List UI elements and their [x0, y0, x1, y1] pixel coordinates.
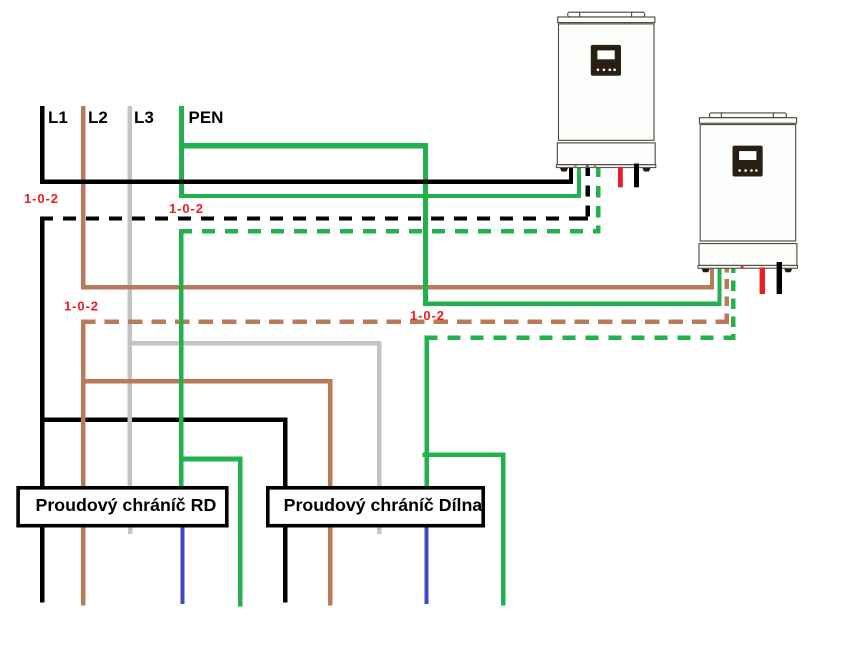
wire blue neutral below box Dilna — [424, 528, 428, 605]
wire brown horizontal y287 to inverter U2 — [81, 285, 714, 289]
wire L1 black feeder to box Dilna: horizontal y420 + drop at x285 — [40, 418, 287, 603]
box RCD Proudovy chranic Dilna — [268, 488, 483, 526]
U1 terminal tick brown — [574, 165, 577, 167]
wire brown vertical lower x83 into box RD — [81, 320, 86, 486]
svg-text:1-0-2: 1-0-2 — [410, 308, 445, 323]
wire green vertical x425 down to y303 — [423, 143, 428, 306]
wire green vertical lower x181 into box RD — [179, 229, 184, 486]
wire L2 brown bus vertical upper x83 — [81, 106, 86, 285]
wire green dashed return y231 from inverter U1 — [179, 229, 601, 233]
wire brown riser into inverter U2 at x712 — [710, 268, 714, 290]
svg-text:1-0-2: 1-0-2 — [24, 191, 59, 206]
wire green dashed return y338 from inverter U2 — [424, 336, 735, 340]
inverter U2 — [698, 113, 797, 294]
svg-text:L3: L3 — [134, 108, 154, 127]
wire green riser into inverter U2 at x719 — [717, 268, 721, 306]
svg-text:1-0-2: 1-0-2 — [64, 299, 99, 314]
wire green PE bypass vertical x240 to bottom — [238, 457, 243, 607]
wire L3 gray drop to box Dilna at x379 — [377, 341, 382, 486]
wire green riser into inverter U1 at x579 — [577, 167, 581, 198]
wire L3 gray branch horizontal y343 — [127, 341, 381, 346]
U2 battery wire black — [777, 262, 782, 294]
wire brown dashed riser at x727 to inverter U2 — [725, 268, 729, 322]
wire brown dashed return y322 from inverter U2 — [81, 320, 729, 324]
wire L3 gray bus vertical x130 — [127, 106, 132, 486]
wire black dashed riser at x588 to inverter U1 — [575, 167, 590, 221]
inverter U1 — [556, 12, 655, 187]
U2 terminal tick red — [741, 266, 744, 268]
wire black horizontal y181 to inverter U1 — [40, 179, 573, 184]
U1 battery wire black — [634, 164, 639, 188]
wire gray stub below box RD — [128, 528, 133, 535]
wire PEN thick green horizontal y146 to x425 — [179, 143, 428, 148]
wire L2 brown feeder to box Dilna: horizontal y381 + drop at x330 — [81, 379, 332, 606]
wire brown below box RD — [81, 528, 86, 606]
svg-text:L2: L2 — [88, 108, 108, 127]
wire black dashed return y218 from inverter U1 — [40, 216, 588, 220]
svg-text:PEN: PEN — [189, 108, 224, 127]
wire blue neutral below box RD — [180, 528, 184, 605]
U1 battery wire red — [618, 167, 623, 187]
svg-text:1-0-2: 1-0-2 — [169, 201, 204, 216]
node PEN green bus vertical upper x181 — [179, 106, 184, 198]
U1 terminal tick brown2 — [594, 165, 597, 167]
wire black riser into inverter U1 at x571 — [569, 167, 573, 181]
wire green PE bypass of box RD: y458 branch to x240 — [179, 457, 242, 462]
wire green PE bypass of box Dilna: y453 branch to x503 — [423, 452, 506, 457]
wire green dashed riser at x733 to inverter U2 — [731, 268, 735, 340]
wire green vertical x426 into box Dilna — [424, 336, 429, 487]
svg-text:Proudový chráníč RD: Proudový chráníč RD — [35, 495, 216, 515]
wire L1 black bus vertical upper x42 — [40, 106, 45, 181]
wire green PE bypass vertical x503 to bottom — [501, 452, 506, 605]
box RCD Proudovy chranic RD — [18, 488, 227, 526]
svg-text:Proudový chráníč Dílna: Proudový chráníč Dílna — [284, 495, 483, 515]
U1 terminal tick blue — [586, 165, 589, 167]
U2 battery wire red — [760, 268, 765, 295]
wire green dashed riser at x598 to inverter U1 — [596, 167, 600, 233]
wire gray stub below box Dilna — [377, 528, 382, 535]
svg-text:L1: L1 — [48, 108, 68, 127]
wire green horizontal y196 to inverter U1 — [179, 194, 581, 198]
wire L1 black bus vertical lower x42 into box RD — [40, 216, 45, 486]
wire black below box RD — [40, 528, 45, 603]
wire green horizontal y303 to inverter U2 — [423, 301, 722, 306]
